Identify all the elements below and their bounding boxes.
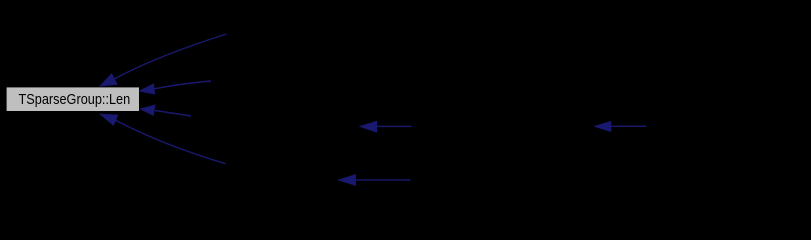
edge A (curve from top-right caller node into top of TSparseGroup::Len) <box>100 34 226 86</box>
edge C (line from right caller node into lower right edge of TSparseGroup::Len) <box>141 105 191 116</box>
arrow 2 (edge between hidden middle nodes, lower) <box>339 175 411 186</box>
svg-text:TSparseGroup::Len: TSparseGroup::Len <box>19 91 131 108</box>
arrow 1 (edge between hidden middle nodes, upper) <box>360 121 411 132</box>
edge D (curve from bottom-right caller node into bottom of TSparseGroup::Len) <box>100 114 225 164</box>
edge B (line from right caller node into right edge of TSparseGroup::Len) <box>140 81 211 94</box>
node TSparseGroup::Len (highlighted grey node) <box>7 87 139 111</box>
arrow 3 (edge between hidden right nodes) <box>595 122 646 132</box>
